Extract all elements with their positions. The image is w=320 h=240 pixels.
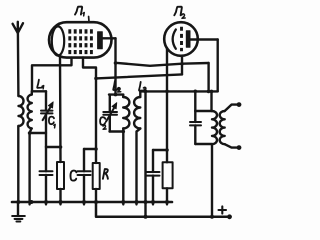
label L3 — [139, 82, 146, 92]
resistor R1 (cathode) — [57, 162, 64, 204]
+rail — [96, 202, 231, 217]
capacitor C1 (variable) — [41, 91, 53, 147]
wire primary top riser — [210, 91, 212, 111]
bus (common) — [12, 201, 172, 204]
wire feed through to +rail — [144, 91, 146, 217]
U1 grid dashes — [70, 29, 92, 54]
capacitor C4 (cathode bypass) — [40, 147, 53, 204]
label C — [70, 171, 76, 181]
wire top tick — [88, 17, 90, 22]
capacitor C3 — [147, 150, 160, 204]
tube U2 (Л2) — [164, 22, 198, 56]
wire U2 cathode down — [166, 48, 168, 162]
capacitor C2 (variable) — [103, 95, 117, 132]
wire U2 grid lead — [181, 56, 183, 75]
wire U1 anode down to tank — [114, 38, 116, 94]
label L2 — [113, 81, 121, 92]
resistor R (pair2) — [93, 163, 100, 202]
label R — [103, 169, 108, 179]
label tube U2 (Л2) — [174, 7, 185, 19]
wire secondary top terminal — [225, 105, 238, 111]
wire tank bottom to cathode line — [46, 146, 61, 148]
wire L1 bottom — [30, 129, 46, 205]
capacitor across primary — [190, 111, 201, 144]
wire U1 lead B step — [83, 58, 96, 164]
tank top wire — [109, 93, 123, 95]
wire anode line to right — [116, 63, 209, 66]
wire antenna coil to bus — [17, 126, 19, 202]
wire antenna stem — [17, 33, 20, 96]
wire L1 top to tank top — [32, 91, 46, 94]
tank bottom wire — [110, 130, 124, 132]
coil L1 — [28, 95, 32, 129]
U2 grid dashes — [180, 27, 183, 52]
wire U1 cathode down — [59, 56, 62, 162]
label tube U1 (Л1) — [75, 7, 84, 16]
wire U2 anode lead — [190, 38, 218, 40]
plus sign — [219, 206, 227, 213]
wire secondary bottom terminal — [225, 144, 238, 147]
antenna — [13, 22, 23, 96]
coil L3 — [134, 91, 140, 128]
wire L1 top to U1 grid riser — [32, 58, 72, 92]
label C1 — [49, 117, 55, 128]
wire L3 bottom to bus — [137, 129, 141, 205]
transformer secondary coil — [220, 111, 225, 144]
wire U2 anode down — [216, 40, 218, 92]
resistor R3 — [163, 162, 173, 204]
RC3 top wire — [153, 149, 167, 151]
coil L2 — [123, 95, 129, 129]
wire to transformer cap — [194, 91, 196, 111]
wire U1 anode lead — [102, 37, 115, 39]
ground — [12, 202, 25, 222]
transformer bottom wire — [195, 143, 212, 145]
tube U1 (Л1) — [49, 22, 112, 57]
capacitor C (pair2) — [78, 149, 97, 204]
transformer primary coil — [212, 111, 217, 144]
wire L2 bottom to bus — [122, 129, 124, 205]
wire primary to +rail — [211, 144, 213, 217]
transformer top wire — [195, 110, 212, 112]
wire jog right of U2 — [207, 63, 209, 91]
wire grid-leak horizontal — [96, 74, 182, 78]
U2 anode plate — [186, 31, 190, 47]
label L1 — [37, 80, 43, 89]
antenna coupling coil — [19, 96, 24, 126]
U1 anode plate — [98, 32, 103, 49]
label C2 — [100, 117, 106, 129]
wire L3 top to U2 anode corner — [140, 90, 217, 92]
